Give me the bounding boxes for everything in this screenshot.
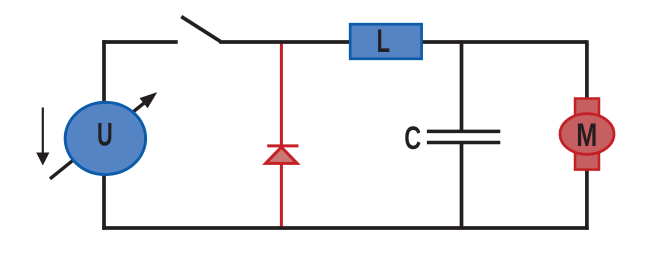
freewheeling diode V (anode triangle) — [266, 147, 298, 163]
motor top brush tab — [575, 99, 599, 121]
svg-text:U: U — [97, 116, 113, 152]
capacitor C top plate — [427, 130, 500, 134]
motor M — [560, 99, 614, 170]
motor body ellipse — [560, 114, 614, 155]
wire: top rail left segment (source to switch left contact) — [102, 40, 178, 44]
svg-text:C: C — [404, 120, 421, 155]
inductor L — [350, 23, 421, 59]
freewheeling diode V (cathode bar) — [267, 144, 298, 147]
switch S (open blade) — [181, 17, 220, 42]
wire: bottom rail — [102, 226, 589, 230]
current direction arrow head — [36, 153, 49, 166]
wire: capacitor branch lower — [460, 143, 464, 229]
wire: top rail right segment (switch to right corner) — [219, 40, 587, 44]
variability arrow head — [141, 94, 155, 107]
source body ellipse — [65, 102, 145, 174]
current direction arrow shaft — [42, 108, 44, 155]
wire: left branch vertical (through source U) — [102, 40, 106, 230]
diode branch wire (red, node between switch and L down to bottom rail) — [280, 42, 283, 228]
motor bottom brush tab — [575, 148, 599, 170]
capacitor C bottom plate — [427, 141, 500, 145]
wire: capacitor branch upper — [460, 42, 464, 131]
voltage source U (variable DC source) — [36, 94, 155, 179]
wire: right branch vertical (through motor M) — [585, 40, 589, 230]
svg-text:L: L — [377, 23, 390, 59]
svg-text:M: M — [576, 118, 597, 154]
variability arrow shaft through source — [50, 102, 146, 179]
